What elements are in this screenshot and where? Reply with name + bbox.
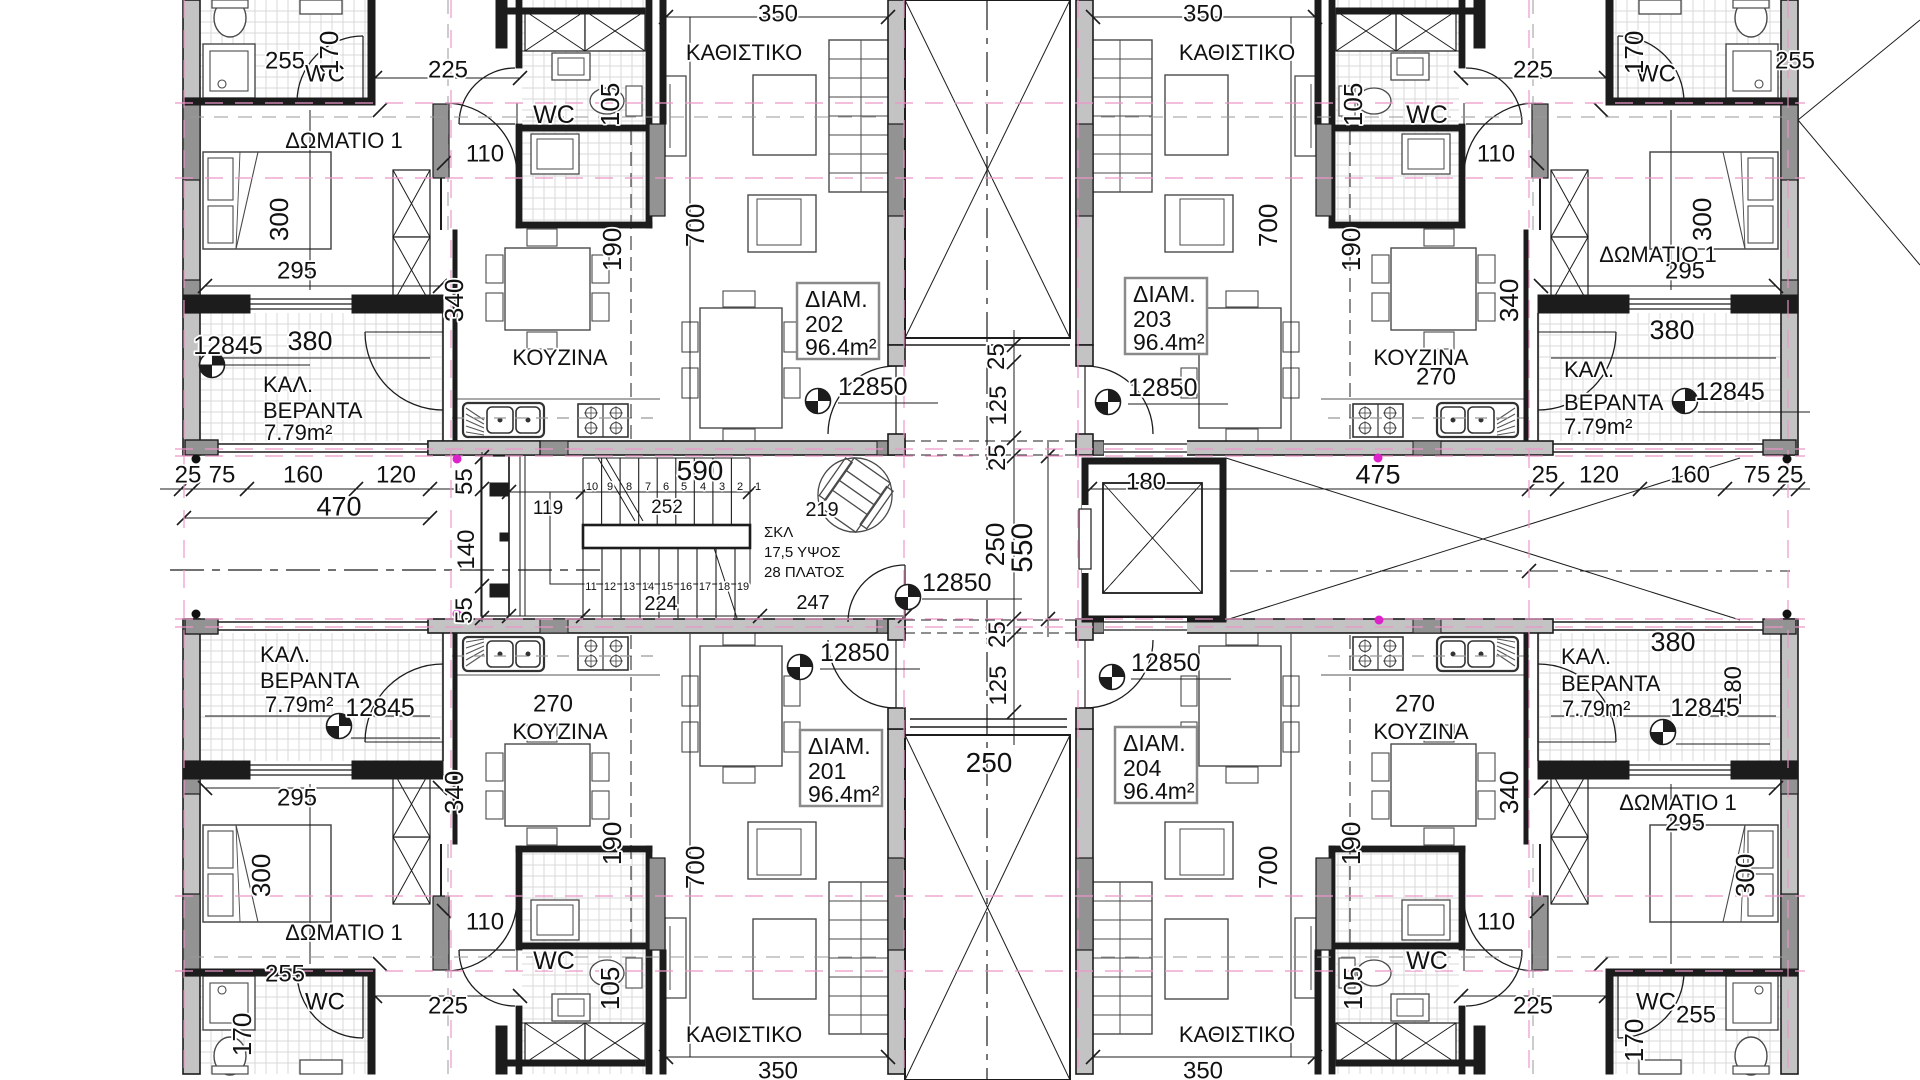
- grey dashed guide lines: [190, 116, 880, 118]
- elevator shaft: [1085, 461, 1223, 619]
- svg-text:219: 219: [805, 499, 838, 521]
- svg-text:300: 300: [246, 854, 276, 897]
- svg-text:12850: 12850: [922, 569, 992, 597]
- svg-text:170: 170: [1619, 1019, 1649, 1062]
- dim line 475: [1090, 488, 1529, 490]
- svg-text:295: 295: [277, 258, 317, 285]
- svg-text:16: 16: [680, 581, 692, 593]
- svg-text:ΒΕΡΑΝΤΑ: ΒΕΡΑΝΤΑ: [1561, 671, 1661, 696]
- centerline left strip: [170, 569, 600, 571]
- apartment label box 202: [797, 283, 879, 359]
- corridor dimension line: [1013, 330, 1015, 745]
- svg-text:350: 350: [758, 1058, 798, 1080]
- svg-text:105: 105: [595, 967, 625, 1010]
- svg-text:25: 25: [984, 444, 1011, 471]
- svg-text:12: 12: [604, 581, 616, 593]
- svg-text:12850: 12850: [820, 639, 890, 667]
- svg-text:255: 255: [1775, 48, 1815, 75]
- svg-text:ΚΑΘΙΣΤΙΚΟ: ΚΑΘΙΣΤΙΚΟ: [686, 40, 802, 65]
- svg-text:10: 10: [586, 481, 598, 493]
- svg-text:25: 25: [983, 343, 1010, 370]
- svg-text:7.79m²: 7.79m²: [1562, 696, 1630, 721]
- svg-text:180: 180: [1126, 469, 1166, 496]
- svg-text:700: 700: [1253, 846, 1283, 889]
- dim row right (25 120 160 75 25): [1529, 488, 1810, 490]
- svg-text:ΔΙΑΜ.: ΔΙΑΜ.: [1133, 281, 1196, 307]
- svg-text:12845: 12845: [193, 332, 263, 360]
- svg-text:WC: WC: [533, 947, 575, 975]
- svg-text:14: 14: [642, 581, 654, 593]
- elevator door: [1082, 505, 1090, 573]
- svg-text:475: 475: [1355, 460, 1400, 490]
- svg-text:WC: WC: [1406, 947, 1448, 975]
- svg-text:110: 110: [1477, 909, 1515, 936]
- svg-text:225: 225: [1513, 57, 1553, 84]
- stair upper flight break line: [598, 458, 635, 521]
- svg-text:170: 170: [227, 1013, 257, 1056]
- svg-text:120: 120: [376, 462, 416, 489]
- wheelchair turning symbol: [803, 443, 906, 546]
- svg-text:110: 110: [466, 141, 504, 168]
- apartment top-left geometry: [183, 0, 905, 455]
- svg-text:700: 700: [1253, 204, 1283, 247]
- svg-text:7.79m²: 7.79m²: [264, 420, 332, 445]
- svg-text:ΚΑΘΙΣΤΙΚΟ: ΚΑΘΙΣΤΙΚΟ: [1179, 1022, 1295, 1047]
- level marker 12850: [1100, 665, 1125, 690]
- svg-text:ΚΟΥΖΙΝΑ: ΚΟΥΖΙΝΑ: [512, 719, 608, 744]
- svg-text:225: 225: [428, 993, 468, 1020]
- svg-text:ΚΑΘΙΣΤΙΚΟ: ΚΑΘΙΣΤΙΚΟ: [686, 1022, 802, 1047]
- svg-text:ΔΩΜΑΤΙΟ 1: ΔΩΜΑΤΙΟ 1: [285, 920, 403, 945]
- svg-text:270: 270: [1416, 364, 1456, 391]
- apartment label box 204: [1115, 727, 1197, 803]
- svg-text:ΔΩΜΑΤΙΟ 1: ΔΩΜΑΤΙΟ 1: [1619, 790, 1737, 815]
- stair handrail middle band: [583, 525, 750, 548]
- svg-text:340: 340: [439, 771, 469, 814]
- apartment label box 201: [800, 730, 882, 806]
- level marker 12845: [327, 714, 352, 739]
- svg-text:7.79m²: 7.79m²: [265, 692, 333, 717]
- svg-text:7: 7: [645, 481, 651, 493]
- svg-text:340: 340: [1494, 771, 1524, 814]
- svg-text:295: 295: [277, 785, 317, 812]
- svg-text:250: 250: [966, 747, 1013, 778]
- svg-text:470: 470: [316, 492, 361, 522]
- svg-text:75: 75: [1744, 462, 1771, 489]
- level marker 12845: [1673, 389, 1698, 414]
- survey dots: [453, 455, 462, 464]
- svg-text:270: 270: [1395, 691, 1435, 718]
- stair duct left: [481, 456, 509, 616]
- svg-text:380: 380: [1650, 627, 1695, 657]
- svg-text:125: 125: [985, 666, 1012, 706]
- svg-text:340: 340: [439, 279, 469, 322]
- svg-text:350: 350: [1183, 1058, 1223, 1080]
- svg-text:119: 119: [533, 498, 563, 519]
- svg-text:9: 9: [607, 481, 613, 493]
- svg-text:96.4m²: 96.4m²: [1123, 778, 1195, 804]
- svg-text:1: 1: [755, 481, 761, 493]
- dim line duct: [481, 452, 483, 622]
- svg-text:ΚΟΥΖΙΝΑ: ΚΟΥΖΙΝΑ: [512, 345, 608, 370]
- svg-text:13: 13: [623, 581, 635, 593]
- stair dim line 224/247: [509, 615, 905, 617]
- elevator cab: [1103, 483, 1202, 593]
- svg-text:17,5 ΥΨΟΣ: 17,5 ΥΨΟΣ: [764, 544, 841, 561]
- svg-text:ΔΩΜΑΤΙΟ 1: ΔΩΜΑΤΙΟ 1: [285, 128, 403, 153]
- svg-text:55: 55: [451, 597, 478, 624]
- svg-text:7.79m²: 7.79m²: [1564, 414, 1632, 439]
- apartment bottom-left geometry (mirrored): [183, 619, 905, 1075]
- svg-text:6: 6: [663, 481, 669, 493]
- stairwell top wall band: [428, 441, 540, 455]
- svg-text:ΣΚΛ: ΣΚΛ: [764, 524, 793, 541]
- svg-text:96.4m²: 96.4m²: [808, 781, 880, 807]
- svg-text:11: 11: [585, 581, 596, 593]
- level marker 12845: [200, 353, 225, 378]
- stair upper flight treads: [582, 458, 584, 525]
- threshold apartment door bottom: [1104, 618, 1187, 634]
- level marker 12850: [896, 585, 921, 610]
- svg-text:19: 19: [737, 581, 749, 593]
- svg-text:300: 300: [1730, 854, 1760, 897]
- svg-text:350: 350: [758, 1, 798, 28]
- svg-text:247: 247: [796, 592, 829, 614]
- stair lower flight treads: [582, 548, 584, 618]
- svg-text:15: 15: [661, 581, 673, 593]
- light well top bottom wall: [905, 337, 1070, 339]
- stair lower flight break: [714, 548, 737, 618]
- svg-text:170: 170: [314, 31, 344, 74]
- svg-text:ΚΑΘΙΣΤΙΚΟ: ΚΑΘΙΣΤΙΚΟ: [1179, 40, 1295, 65]
- svg-text:380: 380: [1649, 315, 1694, 345]
- svg-text:ΚΑΛ.: ΚΑΛ.: [263, 372, 313, 397]
- svg-text:96.4m²: 96.4m²: [1133, 329, 1205, 355]
- svg-text:190: 190: [597, 822, 627, 865]
- svg-text:225: 225: [1513, 993, 1553, 1020]
- svg-text:96.4m²: 96.4m²: [805, 334, 877, 360]
- svg-text:190: 190: [1336, 228, 1366, 271]
- svg-text:190: 190: [1336, 822, 1366, 865]
- svg-text:12850: 12850: [1128, 374, 1198, 402]
- svg-text:25: 25: [175, 462, 202, 489]
- svg-text:8: 8: [626, 481, 632, 493]
- stair dim line 119/252: [509, 491, 750, 493]
- level marker 12845: [1651, 720, 1676, 745]
- svg-text:WC: WC: [305, 989, 345, 1016]
- svg-text:75: 75: [209, 462, 236, 489]
- svg-text:255: 255: [265, 961, 305, 988]
- svg-text:300: 300: [264, 198, 294, 241]
- svg-text:340: 340: [1494, 279, 1524, 322]
- apartment top-right geometry (mirrored): [1076, 0, 1798, 455]
- level marker 12850: [1096, 390, 1121, 415]
- svg-text:700: 700: [680, 204, 710, 247]
- stairwell left wall: [508, 456, 510, 616]
- svg-text:140: 140: [453, 530, 480, 570]
- svg-text:25: 25: [984, 621, 1011, 648]
- svg-text:590: 590: [677, 455, 724, 486]
- dim row left (25 75 160 120): [160, 488, 460, 490]
- svg-text:255: 255: [265, 48, 305, 75]
- svg-text:225: 225: [428, 57, 468, 84]
- svg-text:105: 105: [595, 83, 625, 126]
- svg-text:12845: 12845: [345, 694, 415, 722]
- svg-text:WC: WC: [1406, 101, 1448, 129]
- svg-text:160: 160: [283, 462, 323, 489]
- svg-text:18: 18: [718, 581, 730, 593]
- svg-text:300: 300: [1687, 198, 1717, 241]
- svg-text:ΔΙΑΜ.: ΔΙΑΜ.: [805, 286, 868, 312]
- svg-text:17: 17: [699, 581, 711, 593]
- svg-text:110: 110: [1477, 141, 1515, 168]
- svg-text:55: 55: [451, 468, 478, 495]
- svg-text:12845: 12845: [1695, 378, 1765, 406]
- svg-text:2: 2: [737, 481, 743, 493]
- svg-text:125: 125: [985, 386, 1012, 426]
- svg-text:ΚΑΛ.: ΚΑΛ.: [260, 642, 310, 667]
- level marker 12850: [788, 655, 813, 680]
- svg-text:380: 380: [287, 326, 332, 356]
- svg-text:ΚΟΥΖΙΝΑ: ΚΟΥΖΙΝΑ: [1373, 719, 1469, 744]
- svg-text:110: 110: [466, 909, 504, 936]
- svg-text:ΚΑΛ.: ΚΑΛ.: [1564, 357, 1614, 382]
- svg-text:350: 350: [1183, 1, 1223, 28]
- svg-text:12850: 12850: [838, 373, 908, 401]
- apartment label box 203: [1125, 278, 1207, 354]
- courtyard crossed diagonals right: [1226, 458, 1740, 620]
- light well bottom top wall: [910, 718, 1067, 720]
- svg-text:ΒΕΡΑΝΤΑ: ΒΕΡΑΝΤΑ: [1564, 390, 1664, 415]
- svg-text:120: 120: [1579, 462, 1619, 489]
- light well bottom (crossed shaft): [905, 735, 1070, 1080]
- svg-text:255: 255: [1676, 1002, 1716, 1029]
- svg-text:WC: WC: [1636, 989, 1676, 1016]
- dim line 470: [184, 517, 430, 519]
- svg-text:ΔΙΑΜ.: ΔΙΑΜ.: [1123, 730, 1186, 756]
- svg-text:28 ΠΛΑΤΟΣ: 28 ΠΛΑΤΟΣ: [764, 564, 844, 581]
- svg-text:25: 25: [1777, 462, 1804, 489]
- corridor band dashes: [905, 440, 1080, 442]
- svg-text:700: 700: [680, 846, 710, 889]
- svg-text:105: 105: [1338, 967, 1368, 1010]
- svg-text:ΔΩΜΑΤΙΟ 1: ΔΩΜΑΤΙΟ 1: [1599, 242, 1717, 267]
- svg-text:224: 224: [644, 593, 677, 615]
- svg-text:12850: 12850: [1131, 649, 1201, 677]
- svg-text:170: 170: [1619, 31, 1649, 74]
- svg-text:270: 270: [533, 691, 573, 718]
- svg-text:550: 550: [1006, 523, 1039, 573]
- grid axis lines (pink dashed): [175, 102, 1805, 104]
- apartment bottom-right geometry (mirrored): [1076, 619, 1798, 1075]
- svg-text:190: 190: [597, 228, 627, 271]
- stair outline box: [550, 492, 750, 584]
- door arc stairwell exit: [848, 565, 905, 622]
- svg-text:160: 160: [1670, 462, 1710, 489]
- svg-text:12845: 12845: [1670, 694, 1740, 722]
- svg-text:252: 252: [651, 497, 683, 518]
- svg-text:ΒΕΡΑΝΤΑ: ΒΕΡΑΝΤΑ: [260, 668, 360, 693]
- level marker 12850: [806, 389, 831, 414]
- svg-text:WC: WC: [533, 101, 575, 129]
- site boundary diagonals top right: [1798, 20, 1920, 120]
- svg-text:105: 105: [1338, 83, 1368, 126]
- svg-text:ΚΑΛ.: ΚΑΛ.: [1561, 644, 1611, 669]
- threshold apartment door top: [1104, 440, 1187, 456]
- light well top (crossed shaft): [905, 0, 1070, 338]
- svg-text:ΔΙΑΜ.: ΔΙΑΜ.: [808, 733, 871, 759]
- svg-text:25: 25: [1532, 462, 1559, 489]
